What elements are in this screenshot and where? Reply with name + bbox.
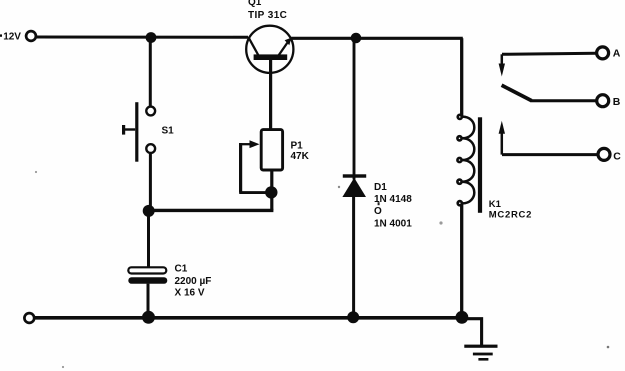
label - 12V <box>0 34 2 36</box>
svg-text:K1: K1 <box>489 199 502 210</box>
svg-text:X 16 V: X 16 V <box>175 288 205 299</box>
svg-text:1N 4148: 1N 4148 <box>374 194 412 205</box>
wire D1 lower <box>352 197 355 318</box>
diode D1 <box>343 174 366 177</box>
transistor Q1 <box>246 26 293 73</box>
wire right branch down to coil <box>460 38 463 116</box>
relay core bar <box>478 117 482 213</box>
svg-text:47K: 47K <box>291 151 310 162</box>
node junction S1/C1/P1 <box>143 205 155 217</box>
wire top rail right <box>291 37 463 40</box>
node junction P1 wiper <box>265 186 277 198</box>
node junction D1 bottom <box>347 311 359 323</box>
wire S1 branch upper <box>149 38 152 107</box>
wire to ground <box>462 319 482 345</box>
wire junction to C1 <box>147 211 150 268</box>
contact C <box>499 121 622 163</box>
node +12V terminal <box>26 31 36 41</box>
node junction top of S1 branch <box>146 32 157 43</box>
wire coil to bottom rail <box>460 204 463 317</box>
wire bottom rail <box>34 316 463 320</box>
node junction C1 bottom <box>142 311 155 324</box>
svg-text:D1: D1 <box>374 182 387 193</box>
svg-text:P1: P1 <box>291 140 304 151</box>
svg-text:A: A <box>613 47 621 59</box>
wire C1 to bottom rail <box>147 284 150 317</box>
scan specks (decorative) <box>439 221 442 224</box>
capacitor C1 <box>128 267 166 273</box>
relay coil K1 <box>462 117 474 204</box>
contact A <box>499 47 621 77</box>
ground <box>464 345 497 361</box>
svg-text:O: O <box>374 206 382 217</box>
svg-text:12V: 12V <box>3 32 21 43</box>
wire S1 to lower junction <box>149 153 152 211</box>
node junction K1 bottom <box>456 311 469 324</box>
wire P1 to S1 junction <box>148 209 273 212</box>
svg-text:MC2RC2: MC2RC2 <box>489 210 532 221</box>
svg-text:S1: S1 <box>162 125 175 136</box>
wire collector to P1 <box>269 60 272 131</box>
switch S1 <box>146 107 155 116</box>
svg-text:C: C <box>613 150 621 162</box>
svg-text:1N 4001: 1N 4001 <box>374 219 412 230</box>
svg-text:Q1: Q1 <box>248 0 262 8</box>
wire top rail left <box>36 36 248 39</box>
node junction D1 top <box>351 33 362 44</box>
svg-text:C1: C1 <box>175 263 188 274</box>
wire D1 upper <box>353 38 356 180</box>
contact B armature <box>502 85 621 108</box>
node bottom-left terminal <box>24 313 34 323</box>
svg-text:B: B <box>613 96 621 108</box>
svg-text:TIP 31C: TIP 31C <box>248 10 287 21</box>
potentiometer P1 <box>239 130 282 211</box>
svg-text:2200 µF: 2200 µF <box>175 276 212 287</box>
